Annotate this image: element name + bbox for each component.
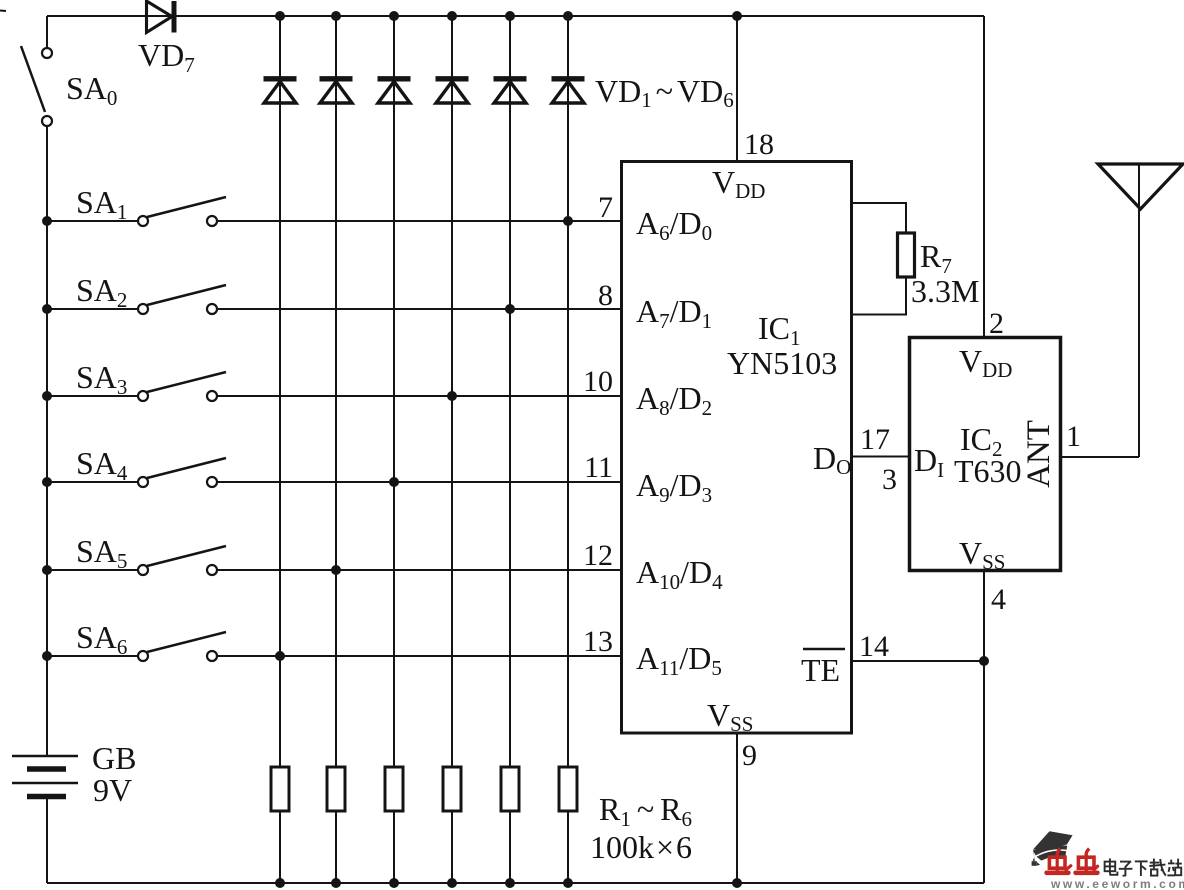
wire column 3	[393, 16, 395, 883]
switch SA1	[47, 197, 226, 226]
svg-text:SA5: SA5	[76, 533, 127, 573]
switch SA3	[47, 372, 226, 401]
node bottom rail / column 6	[563, 878, 573, 888]
svg-text:9: 9	[742, 739, 757, 772]
node top rail / column 5	[505, 11, 515, 21]
node left rail / SA1	[42, 216, 52, 226]
wire top rail	[47, 15, 984, 17]
svg-text:A8/D2: A8/D2	[636, 380, 712, 420]
svg-text:R7: R7	[920, 238, 952, 278]
node bottom rail / column 2	[331, 878, 341, 888]
node bottom rail / column 5	[505, 878, 515, 888]
wire left rail	[46, 126, 48, 757]
svg-text:A7/D1: A7/D1	[636, 293, 712, 333]
resistor R5	[501, 767, 519, 811]
watermark text zai	[1149, 859, 1165, 876]
svg-text:DO: DO	[813, 440, 851, 479]
switch SA2	[47, 285, 226, 314]
diode VD1	[264, 79, 297, 103]
wire column 5	[509, 16, 511, 883]
node bottom rail / column 4	[447, 878, 457, 888]
svg-text:9V: 9V	[93, 772, 132, 808]
switch SA4	[47, 458, 226, 487]
wire pin 18 lead	[736, 16, 738, 162]
watermark red bug glyph 1	[1047, 849, 1071, 873]
node left rail / SA5	[42, 565, 52, 575]
diode VD4	[436, 79, 469, 103]
node bottom rail / pin 9 lead	[732, 878, 742, 888]
svg-text:2: 2	[989, 307, 1004, 340]
node top rail / column 1	[275, 11, 285, 21]
resistor R2	[327, 767, 345, 811]
resistor R4	[443, 767, 461, 811]
diode VD7	[147, 1, 175, 33]
node SA3 row / column 4	[447, 391, 457, 401]
svg-text:3: 3	[882, 463, 897, 496]
svg-text:VSS: VSS	[707, 697, 753, 736]
node SA6 row / column 1	[275, 651, 285, 661]
watermark graduation cap	[1032, 831, 1073, 866]
svg-text:17: 17	[860, 423, 890, 456]
diode VD5	[494, 79, 527, 103]
wire R7 bottom lead	[852, 277, 906, 315]
svg-text:YN5103: YN5103	[727, 345, 837, 381]
svg-text:7: 7	[598, 191, 613, 224]
watermark text xia	[1135, 861, 1148, 876]
wire SA0 top lead	[46, 16, 48, 49]
svg-text:11: 11	[584, 451, 613, 484]
node top rail / column 3	[389, 11, 399, 21]
resistor R3	[385, 767, 403, 811]
svg-text:4: 4	[991, 583, 1006, 616]
wire IC2 pin 2 lead from top rail	[983, 16, 985, 338]
wire column 6	[567, 16, 569, 883]
wire R7 top lead	[852, 203, 906, 233]
diode VD6	[552, 79, 585, 103]
svg-text:SA4: SA4	[76, 445, 128, 485]
svg-text:www.eeworm.com: www.eeworm.com	[1050, 877, 1184, 890]
node left rail / SA3	[42, 391, 52, 401]
node SA5 row / column 2	[331, 565, 341, 575]
svg-text:1: 1	[1066, 420, 1081, 453]
wire pin 9 lead	[736, 733, 738, 883]
antenna ANT symbol	[1098, 164, 1183, 457]
svg-text:18: 18	[744, 128, 774, 161]
scan artifact top-left	[0, 10, 6, 13]
wire bottom rail	[47, 882, 984, 884]
wire pin 1 to antenna	[1061, 456, 1139, 458]
svg-text:A11/D5: A11/D5	[636, 640, 722, 680]
node left rail / SA2	[42, 304, 52, 314]
svg-text:A10/D4: A10/D4	[636, 554, 723, 594]
svg-text:T630: T630	[954, 453, 1022, 489]
svg-text:A6/D0: A6/D0	[636, 205, 712, 245]
svg-text:ANT: ANT	[1021, 420, 1057, 488]
node SA2 row / column 5	[505, 304, 515, 314]
node SA4 row / column 3	[389, 477, 399, 487]
resistor R7	[898, 233, 915, 277]
svg-text:8: 8	[598, 279, 613, 312]
svg-text:VD1~VD6: VD1~VD6	[595, 73, 734, 112]
wire row SA5 to pin 12	[217, 569, 622, 571]
wire row SA3 to pin 10	[217, 395, 622, 397]
wire column 2	[335, 16, 337, 883]
pin TE label with overline	[801, 649, 845, 688]
node left rail / SA6	[42, 651, 52, 661]
svg-text:SA3: SA3	[76, 359, 127, 399]
wire row SA1 to pin 7	[217, 220, 622, 222]
wire IC2 pin 4 lead to bottom rail	[983, 571, 985, 884]
svg-text:100k×6: 100k×6	[590, 829, 692, 865]
wire column 4	[451, 16, 453, 883]
wire row SA2 to pin 8	[217, 308, 622, 310]
switch SA0	[21, 46, 52, 126]
node bottom rail / column 1	[275, 878, 285, 888]
switch SA6	[47, 632, 226, 661]
svg-text:R1~R6: R1~R6	[599, 791, 692, 831]
watermark text zi	[1119, 862, 1133, 876]
IC U2 T630 box	[910, 338, 1061, 571]
svg-text:SA1: SA1	[76, 184, 127, 224]
wire row SA6 to pin 13	[217, 655, 622, 657]
wire row SA4 to pin 11	[217, 481, 622, 483]
wire battery negative lead	[46, 798, 48, 883]
watermark text zhan	[1167, 859, 1181, 876]
battery GB	[12, 756, 78, 797]
wire pin 14 TE net	[852, 660, 984, 662]
svg-text:A9/D3: A9/D3	[636, 467, 712, 507]
svg-text:SA6: SA6	[76, 619, 127, 659]
node left rail / SA4	[42, 477, 52, 487]
svg-text:VD7: VD7	[138, 37, 195, 77]
svg-text:IC1: IC1	[758, 310, 801, 350]
resistor R6	[559, 767, 577, 811]
watermark red bug glyph 2	[1076, 849, 1098, 873]
svg-text:VDD: VDD	[959, 343, 1012, 382]
svg-text:SA0: SA0	[66, 70, 117, 110]
svg-text:DI: DI	[914, 442, 944, 482]
resistor R1	[271, 767, 289, 811]
node top rail / column 6	[563, 11, 573, 21]
svg-text:13: 13	[583, 625, 613, 658]
svg-text:14: 14	[859, 630, 889, 663]
svg-text:10: 10	[583, 365, 613, 398]
switch SA5	[47, 546, 226, 575]
node top rail / column 2	[331, 11, 341, 21]
svg-text:VDD: VDD	[712, 164, 765, 203]
IC U1 YN5103 box	[622, 162, 852, 734]
svg-text:12: 12	[583, 539, 613, 572]
node bottom rail / column 3	[389, 878, 399, 888]
wire column 1	[279, 16, 281, 883]
node top rail / column 4	[447, 11, 457, 21]
svg-text:TE: TE	[801, 652, 840, 688]
wire pin 17 to IC2 pin 3	[852, 456, 909, 458]
node SA1 row / column 6	[563, 216, 573, 226]
svg-text:VSS: VSS	[959, 535, 1005, 574]
watermark text dian (electronics)	[1105, 858, 1118, 874]
svg-text:3.3M: 3.3M	[911, 273, 979, 309]
svg-text:GB: GB	[92, 740, 136, 776]
node top rail / pin 18 lead	[732, 11, 742, 21]
svg-text:SA2: SA2	[76, 272, 127, 312]
diode VD3	[378, 79, 411, 103]
node TE net / IC2 pin 4 lead	[979, 656, 989, 666]
diode VD2	[320, 79, 353, 103]
